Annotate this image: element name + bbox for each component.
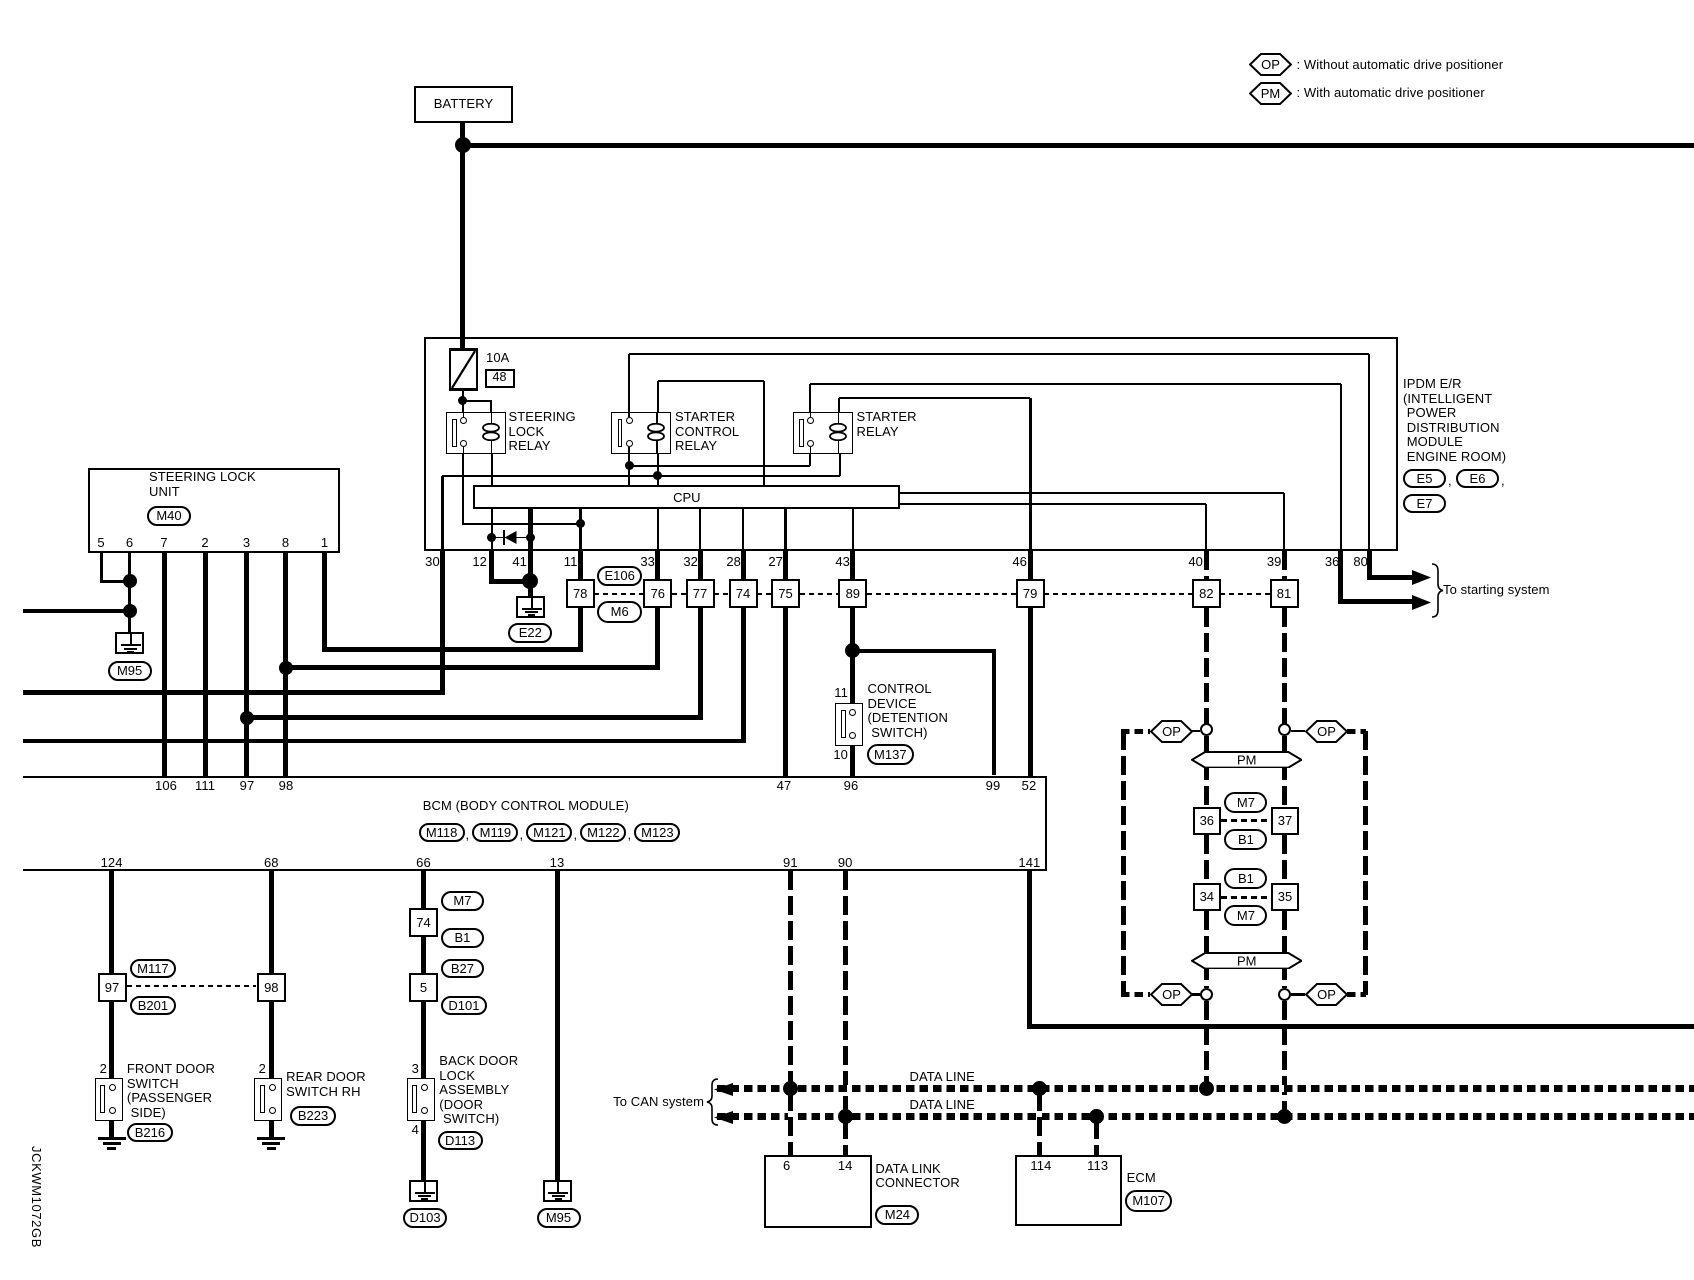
wire 11 CPU to pin 11 [579,509,582,550]
brace to CAN system [705,1078,719,1126]
BCM top pin 96 label [831,779,871,794]
connector pin box 98 [257,973,286,1002]
connector M40 [147,506,191,526]
rear door switch pin 2 label [246,1062,266,1077]
wire pin 12 hook [489,551,494,584]
starter control relay label [675,410,739,454]
junction data line 2 / option wire [1277,1109,1292,1124]
connector pin box 74 [729,579,758,608]
IPDM pin 39 label [1242,555,1282,570]
wire SLR coil bottom / pin 12 net [491,454,493,551]
wire link OP-BL to splice [1192,993,1200,996]
DLC pin 14 label [830,1159,860,1174]
BCM top pin 97 label [227,779,267,794]
connector pin box 81 [1270,579,1299,608]
wire 34 to lower splice [1204,911,1209,988]
wire 33 to steering lock pin 8 [283,665,660,670]
wire 36-37 branch upper-left [1204,736,1209,807]
connector M7 option lower [1224,905,1267,926]
wire SR contact bottom stub [809,454,811,466]
dashed joint line 78-76 [594,593,644,595]
wire pin6 branch to left edge [23,609,130,613]
wire control device pin 10 to BCM 96b [851,743,856,776]
wire pin 80 to starting system arrow [1367,551,1372,580]
option tag OP top-right [1305,720,1348,743]
legend PM text [1297,86,1485,101]
connector pin box 36 [1193,807,1221,835]
dashed joint line 97-98 [127,985,257,987]
back door lock switch symbol [407,1078,435,1121]
wire 43 to BCM 96 [850,551,855,776]
wire 40 dashed to box 82 [1204,551,1209,580]
battery label [419,97,509,112]
connector M7 left [441,891,484,911]
wire 11 to steering lock pin 1 [322,647,583,652]
comma after E6 [1501,474,1505,489]
junction data line 1 / ECM 114 [1032,1081,1047,1096]
wire pin 36 to starting system arrow [1338,551,1343,605]
dashed joint line 74-75 [757,593,771,595]
wire SCR contact bottom to CPU [628,454,630,485]
junction SCR contact net [625,461,634,470]
connector M7 option upper [1224,792,1267,813]
connector pin box 77 [686,579,715,608]
dashed joint line 77-74 [714,593,729,595]
wire steering lock pin 5 [100,553,103,583]
svg-text:OP: OP [1261,57,1280,72]
wire CPU out to pin 40 [900,503,1206,505]
DLC pin 6 label [775,1159,799,1174]
to CAN system label [584,1095,704,1110]
arrow to CAN system lower [714,1111,733,1124]
svg-text:OP: OP [1317,724,1336,739]
wire 32 thick [698,551,703,721]
connector B216 [127,1123,173,1143]
IPDM pin 32 label [658,555,698,570]
wire 33 from CPU [657,509,660,550]
wire between 36 and 34 [1204,835,1209,884]
IPDM pin 28 label [701,555,741,570]
connector E5 [1403,469,1446,489]
IPDM pin 11 label [538,555,578,570]
connector M95 lower [537,1208,581,1228]
steering lock unit pin 5 label [89,536,113,551]
arrow to starting system lower [1412,595,1431,610]
front door switch symbol [95,1078,123,1121]
junction pin11 net [576,519,585,528]
wire data line 1 to ECM 114 [1037,1092,1042,1155]
ECM pin 114 label [1023,1159,1059,1174]
BCM top pin 98 label [266,779,306,794]
svg-text:PM: PM [1237,752,1256,767]
wire BCM 91 to data line 1 [788,871,793,1086]
connector M117 [130,959,176,979]
junction battery bus [455,137,471,153]
starter control relay [611,412,671,454]
steering lock unit label [149,470,256,499]
dashed joint line 82-81 [1220,593,1270,595]
wire BCM 90 to data line 2 [843,871,848,1114]
wire SCR coil bottom to CPU [657,454,659,485]
wire 46 to BCM 52 [1028,551,1033,776]
diode (steering lock relay suppression) [492,537,531,539]
option tag OP bottom-right [1305,983,1348,1006]
front door switch pin 2 label [87,1062,107,1077]
connector M95 upper [108,661,152,681]
junction pin5-pin6 [123,574,137,588]
wire 33 below IPDM [655,551,660,671]
wire SLR contact bottom [462,454,464,525]
wire 28 to left edge [23,739,746,743]
IPDM pin 46 label [987,555,1027,570]
wire 30 to left edge [23,690,445,695]
wire 68 to rear door switch [269,871,274,1078]
control device label [868,682,948,740]
ECM label [1127,1171,1156,1186]
CPU box (inside IPDM) [473,485,900,509]
ground symbol M95 upper [115,632,144,654]
steering lock unit pin 2 label [193,536,217,551]
comma after M118 [466,828,470,843]
wire 30 vertical [441,476,444,551]
splice top-right [1278,723,1291,736]
junction pin3 / wire32 [240,711,254,725]
dashed joint line 36-37 [1221,819,1271,822]
wire control device pin 11 [851,658,856,705]
ground symbol D103 [409,1180,438,1202]
wire 39 dashed to box 81 [1282,551,1287,580]
wire 11 below IPDM [578,551,583,652]
wire 32 to steering lock pin 3 [244,715,702,720]
steering lock unit box [88,468,340,553]
IPDM pin 80 label [1328,555,1368,570]
BCM bottom pin 13 label [535,856,579,871]
wire 43 below IPDM [852,509,855,550]
control device pin 11 label [818,686,848,701]
fuse 10A 48 [449,348,478,391]
steering lock unit pin 7 label [152,536,176,551]
wire 41 to ground [528,551,533,597]
connector M137 [867,744,914,765]
junction pin8 / wire33 [279,661,293,675]
BCM bottom pin 90 label [823,856,867,871]
IPDM pin 30 label [400,555,440,570]
rear door switch symbol [254,1078,282,1121]
wire SCR contact top [628,354,630,412]
comma after M119 [520,828,524,843]
connector pin box 89 [838,579,867,608]
wire steering lock pin 2 [203,553,208,776]
splice bottom-right [1278,988,1291,1001]
wire data line 2 to ECM 113 [1094,1120,1099,1155]
connector D103 [403,1208,447,1228]
wire link splice to OP-TR [1291,730,1306,733]
wire battery bus to right edge [463,143,1694,148]
connector D113 [438,1131,483,1151]
connector B223 [290,1106,336,1126]
dashed joint line 75-89 [800,593,839,595]
control device detention switch symbol [835,703,863,746]
connector pin box 35 [1271,883,1299,911]
connector pin box 75 [771,579,800,608]
dashed joint line 34-35 [1221,896,1271,899]
connector M119 [472,823,518,843]
connector M118 [419,823,465,843]
wire SCR coil top [657,381,659,412]
steering lock unit pin 3 label [235,536,259,551]
wire 27 below IPDM [784,509,787,550]
connector B27 [441,959,484,979]
connector pin box 74b [409,908,438,937]
junction diode cathode [526,533,535,542]
wire back door lock to ground [421,1121,426,1181]
junction fuse out [458,396,467,405]
wire steering lock pin 1 [322,553,327,652]
IPDM pin 43 label [810,555,850,570]
comma after E5 [1448,474,1452,489]
wire link OP-TL to splice [1192,730,1200,733]
data line 2 (CAN-L) [717,1113,1694,1120]
ground symbol M95 lower [543,1180,572,1202]
junction diode anode [487,533,496,542]
IPDM pin 36 label [1300,555,1340,570]
wire OP branch right dashed [1363,731,1368,995]
dashed joint line 89-79 [867,593,1016,595]
IPDM E/R name label [1403,377,1506,464]
connector pin box 97 [98,973,127,1002]
connector pin box 37 [1271,807,1299,835]
starter relay label [857,410,917,439]
wire lower splice left to data line 1 [1204,1001,1209,1086]
wire front door switch to earth [109,1121,114,1137]
data link connector label [875,1162,959,1191]
wire steering lock pin 8 [283,553,288,776]
dashed joint line 79-82 [1044,593,1191,595]
wire OP branch left dashed [1121,731,1126,995]
wire 36-37 branch upper-right [1282,736,1287,807]
back door lock pin 4 label [399,1123,419,1138]
connector pin box 34 [1193,883,1221,911]
wire link splice to OP-BR [1291,993,1306,996]
comma after M121 [574,828,578,843]
option tag PM lower [1191,952,1302,970]
comma after M122 [628,828,632,843]
connector pin box 5 [409,973,438,1002]
BCM bottom pin 68 label [249,856,293,871]
fuse number 48 box [485,369,515,388]
connector E7 [1403,494,1446,514]
connector B1 option lower [1224,868,1267,889]
connector E22 [508,623,552,643]
wire 66 to back door lock [421,871,426,1078]
back door lock label [439,1054,518,1127]
wire data line 2 to DLC pin 14 [843,1120,848,1155]
junction SCR coil / wire30 [653,471,662,480]
BCM bottom pin 91 label [768,856,812,871]
wire steering lock pin 7 [162,553,167,776]
steering lock unit pin 8 label [274,536,298,551]
wire data line 1 to DLC pin 6 [788,1092,793,1155]
data link connector box [764,1155,872,1229]
IPDM pin 33 label [615,555,655,570]
connector pin box 78 [566,579,595,608]
connector E6 [1456,469,1499,489]
data line 1 (CAN-H) [717,1085,1694,1092]
drawing number JCKWM1072GB [29,1146,44,1248]
brace to starting system [1431,563,1445,618]
wire 30 below IPDM [440,551,445,695]
connector M107 [1125,1190,1172,1212]
wire 30 net horizontal [442,475,840,477]
connector pin box 79 [1016,579,1045,608]
option tag OP top-left [1150,720,1193,743]
wire 80 vertical [1368,354,1370,550]
BCM bottom pin 141 label [1007,856,1051,871]
wire 82 dashed to splice [1204,608,1209,724]
wire 35 to lower splice [1282,911,1287,988]
IPDM pin 12 label [447,555,487,570]
connector M24 [875,1205,919,1225]
wire SCR coil CPU drop [763,381,765,485]
svg-text:OP: OP [1162,724,1181,739]
splice bottom-left [1200,988,1213,1001]
connector M121 [526,823,572,843]
BCM top pin 106 label [146,779,186,794]
starter relay [793,412,853,454]
svg-text:OP: OP [1317,987,1336,1002]
connector B1 left [441,928,484,948]
wire between 37 and 35 [1282,835,1287,884]
connector B1 option upper [1224,829,1267,850]
front door switch label [127,1062,215,1120]
wire 40 vertical [1205,504,1207,551]
wire 81 dashed to splice [1282,608,1287,724]
BCM top pin 111 label [185,779,225,794]
dashed joint line 76-77 [672,593,686,595]
wire pin5 hook to pin6 [100,580,130,583]
junction pin6 branch [123,604,137,618]
junction data line 2 / wire 90 [838,1109,853,1124]
wire 28 thick [741,551,746,744]
earth ground rear door switch [257,1137,285,1150]
battery box [414,86,513,123]
wire 141 to right edge [1027,1024,1694,1029]
arrow to starting system upper [1412,570,1431,585]
legend OP text [1297,58,1504,73]
BCM top pin 52 label [1009,779,1049,794]
wire 41 CPU to pin 41 [528,509,533,550]
junction wire43 branch [845,643,860,658]
wire rear door switch to earth [269,1121,274,1137]
BCM bottom pin 66 label [402,856,446,871]
wire 36 vertical [1340,384,1342,551]
back door lock pin 3 label [399,1062,419,1077]
wire 141 vertical [1027,871,1032,1029]
connector pin box 82 [1192,579,1221,608]
wire 43 branch to BCM 99 [853,649,996,654]
BCM (body control module) box [23,776,1048,872]
connector B201 [130,996,176,1016]
wire steering lock pin 6 to ground [128,553,131,633]
steering lock relay [446,412,506,454]
BCM name label [423,799,629,814]
wire steering lock pin 3 [244,553,249,776]
IPDM pin 41 label [487,555,527,570]
ground symbol E22 [516,596,545,618]
wire fuse to relay junction [462,391,464,412]
IPDM E/R module box [424,337,1398,551]
BCM bottom pin 124 label [90,856,134,871]
wire SR coil to pin 46 [839,397,1030,399]
wire lower splice right to data line 2 [1282,1001,1287,1114]
wire SR contact top [809,384,811,412]
wire CPU out to pin 39 [900,492,1284,494]
connector E106 [597,566,642,586]
wire SR contact to pin 36 [810,383,1341,385]
option tag PM upper [1191,751,1302,769]
wire SCR contact to SR contact [629,465,810,467]
wire 27 to BCM 47 [783,551,788,776]
to starting system label [1443,583,1550,598]
wire SR coil bottom stub [839,454,841,476]
splice top-left [1200,723,1213,736]
wire SR coil top [838,398,840,412]
ECM box [1015,1155,1122,1226]
wire SCR contact to pin 80 [629,353,1369,355]
wire to BCM pin 99 [992,651,997,776]
earth ground front door switch [98,1137,126,1150]
data line 1 label [910,1070,975,1085]
legend OP hexagon [1249,53,1292,76]
wire battery to fuse [460,123,465,348]
data line 2 label [910,1098,975,1113]
legend PM hexagon [1249,82,1292,105]
connector M6 [597,601,642,623]
connector D101 [441,996,487,1016]
wire 32 below IPDM [699,509,702,720]
steering lock relay label [509,410,576,454]
svg-text:PM: PM [1237,953,1256,968]
wire SLR contact to pin11 net [463,523,580,525]
steering lock unit pin 6 label [118,536,142,551]
wire 124 to front door switch [109,871,114,1078]
junction data line 1 / option wire [1199,1081,1214,1096]
wire fuse-out to SLR coil [463,400,492,402]
wire SLR coil top stub [490,401,492,412]
ECM pin 113 label [1080,1159,1116,1174]
connector M122 [580,823,626,843]
IPDM pin 40 label [1163,555,1203,570]
wire 46 vertical [1029,398,1032,551]
arrow to CAN system upper [714,1083,733,1096]
control device pin 10 label [818,748,848,763]
connector M123 [634,823,680,843]
svg-text:OP: OP [1162,987,1181,1002]
BCM top pin 99 label [973,779,1013,794]
BCM top pin 47 label [764,779,804,794]
connector pin box 76 [643,579,672,608]
junction data line 2 / ECM 113 [1089,1109,1104,1124]
junction pins 12-41 [522,573,538,589]
option tag OP bottom-left [1150,983,1193,1006]
rear door switch label [286,1070,366,1099]
junction data line 1 / wire 91 [783,1081,798,1096]
wire 13 to ground M95 [555,871,560,1181]
steering lock unit pin 1 label [313,536,337,551]
wire 28 below IPDM [742,509,745,743]
wire SCR coil to CPU [658,380,765,382]
fuse rating 10A [486,351,509,366]
